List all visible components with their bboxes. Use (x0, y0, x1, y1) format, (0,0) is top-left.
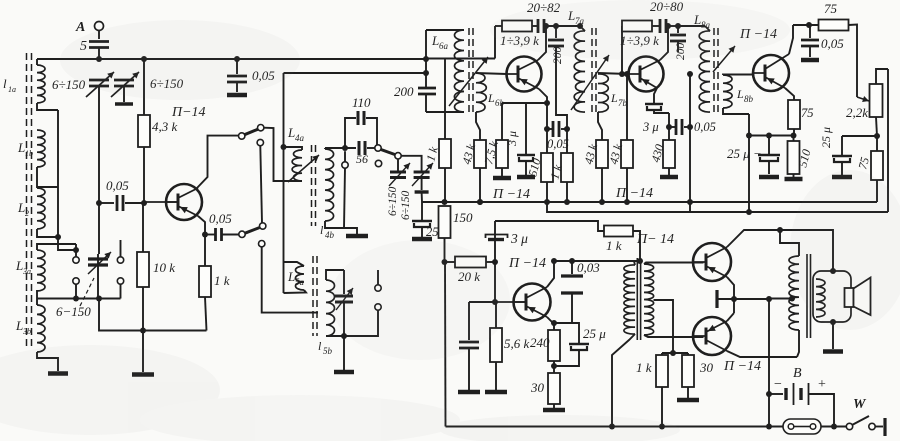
wire rail 567 (566, 122, 568, 202)
wire collector Q7 (727, 351, 797, 357)
node (544, 126, 550, 132)
capacitor 3mu (coupling) (486, 231, 529, 246)
svg-text:l: l (3, 76, 7, 91)
label L8b (736, 87, 754, 104)
wire (544, 23, 583, 29)
main bus (422, 201, 877, 203)
capacitor 20-82 (527, 0, 561, 33)
speaker box (813, 271, 851, 322)
svg-text:П −14: П −14 (615, 186, 653, 201)
primary center tap (769, 296, 795, 302)
wire (98, 48, 100, 60)
svg-text:6÷150: 6÷150 (387, 186, 399, 216)
resistor 150 (439, 206, 474, 238)
svg-text:+: + (818, 377, 826, 392)
coil L3a (37, 244, 76, 291)
wire collector Q2 (538, 23, 549, 60)
svg-text:L: L (17, 140, 25, 155)
svg-text:L: L (17, 200, 25, 215)
svg-text:25 μ −: 25 μ − (727, 146, 762, 161)
coil L4a (281, 144, 303, 181)
coil L5b (326, 270, 344, 336)
coil L5a (284, 262, 307, 293)
resistor 43k (3) (606, 71, 633, 205)
wire emitter Q2 (539, 89, 550, 106)
svg-text:l: l (320, 223, 324, 237)
wire emitter Q6 (727, 277, 734, 313)
coil L8a (678, 26, 710, 112)
switch contact (258, 125, 264, 131)
wire (344, 310, 378, 336)
tuning arrow L6 (449, 57, 488, 106)
wire (98, 203, 99, 265)
emitter tap bar (717, 290, 734, 308)
svg-text:10 k: 10 k (153, 260, 175, 275)
svg-text:240: 240 (530, 335, 550, 350)
node (544, 199, 570, 205)
svg-text:L: L (487, 91, 495, 105)
capacitor 0.03 (558, 258, 600, 323)
label L3a (15, 258, 31, 276)
svg-text:150: 150 (453, 210, 473, 225)
ground (785, 174, 803, 179)
wire collector Q5 (547, 258, 557, 287)
wire (262, 247, 318, 313)
coil L6a (454, 30, 464, 112)
svg-text:110: 110 (352, 95, 371, 110)
svg-text:0,05: 0,05 (209, 211, 232, 226)
wire base Q3 (598, 73, 629, 74)
svg-text:0,03: 0,03 (577, 260, 600, 275)
svg-text:П−14: П−14 (171, 105, 206, 120)
capacitor 3mu (2) (642, 104, 669, 134)
ground speaker (823, 322, 843, 352)
svg-text:30: 30 (530, 380, 545, 395)
node (599, 199, 605, 205)
trimmer 6-150 (88, 252, 111, 274)
svg-text:П −14: П −14 (508, 256, 546, 271)
svg-text:3 μ: 3 μ (510, 231, 528, 246)
svg-text:3b: 3b (22, 327, 31, 336)
wire collector Q6 (727, 230, 833, 272)
capacitor 0.05 (det) (801, 25, 844, 60)
label P-14 IF1 (492, 187, 530, 202)
node (551, 363, 557, 369)
resistor 75 (3) (855, 136, 883, 180)
ground L3b (37, 352, 68, 374)
capacitor 3mu (1) (505, 103, 535, 177)
label L7a (567, 8, 585, 26)
svg-text:2: 2 (25, 209, 29, 218)
switch contact (342, 162, 348, 168)
resistor 510 (2) (788, 136, 814, 175)
IF1 tank box (426, 30, 464, 112)
node (564, 126, 570, 132)
wire (809, 394, 838, 430)
capacitor (input bypass) (458, 302, 495, 392)
node (341, 333, 347, 339)
wire y73 (284, 72, 427, 74)
label L8a (693, 12, 711, 30)
capacitor 200 (3) (670, 26, 687, 60)
resistor 1k (199, 235, 230, 331)
svg-text:6−150: 6−150 (56, 304, 91, 319)
svg-text:l: l (318, 339, 322, 353)
switch contact (395, 153, 401, 159)
wire rail 283 (283, 73, 285, 293)
svg-text:5,6 k: 5,6 k (504, 336, 530, 351)
capacitor 25mu (2) (819, 127, 852, 177)
svg-text:2,2k: 2,2k (846, 105, 868, 120)
ground (334, 336, 354, 372)
wire top bus left (37, 58, 124, 60)
capacitor 25mu (4) (554, 323, 606, 366)
speaker (845, 278, 871, 316)
resistor 430 (648, 140, 675, 168)
wire (344, 168, 345, 228)
capacitor 110 loop (345, 95, 377, 148)
wire (98, 86, 100, 197)
svg-text:W: W (853, 397, 867, 412)
label P-14 Q5 (508, 256, 546, 271)
node (675, 23, 681, 29)
wire collector Q1 (196, 136, 238, 189)
switch contact (259, 223, 266, 247)
wire base Q2 (476, 73, 507, 74)
svg-text:L: L (431, 33, 439, 48)
wiper arrow 2.2k (857, 96, 869, 102)
wire top bus to y26 (426, 26, 495, 59)
resistor 1k (2) (547, 153, 573, 182)
switch contact (73, 278, 79, 284)
wire (260, 146, 262, 223)
switch contact (257, 139, 263, 145)
node (202, 232, 208, 238)
wire (734, 296, 772, 302)
wire emitter Q5 (547, 317, 557, 326)
svg-text:30: 30 (699, 360, 714, 375)
svg-text:56: 56 (356, 152, 368, 166)
wire emitter Q3 (654, 88, 657, 103)
switch contact (375, 160, 381, 166)
svg-text:0,05: 0,05 (106, 178, 129, 193)
resistor 1k (L4 feed) (423, 59, 451, 203)
svg-text:L: L (287, 269, 295, 284)
label P-14 Q1 (171, 105, 206, 120)
resistor 75 (emitter) (788, 100, 814, 129)
antenna A terminal (75, 20, 104, 35)
node (73, 247, 79, 253)
svg-text:L: L (15, 258, 23, 273)
node (553, 23, 559, 29)
node (830, 268, 836, 325)
resistor 1-3.9k (1) (500, 21, 539, 49)
tuning arrow L7 (571, 55, 609, 110)
ground (543, 404, 565, 410)
core L8 (dashed) (714, 28, 718, 112)
core L6 (dashed) (469, 28, 473, 112)
driver transformer core (637, 258, 640, 340)
wire (791, 129, 797, 139)
coil L3b (37, 299, 45, 353)
resistor 1-3.9k (2) (619, 21, 659, 78)
svg-text:−: − (774, 377, 782, 392)
svg-text:1b: 1b (25, 149, 33, 158)
variable capacitor 6-150 (2) (111, 72, 184, 104)
resistor 7.5k (481, 103, 508, 168)
AGC line (547, 202, 888, 212)
wire rail 749 (746, 114, 752, 215)
wire (58, 237, 76, 250)
wire (476, 112, 480, 140)
svg-text:3 μ: 3 μ (505, 131, 519, 147)
coil L2 (37, 188, 58, 237)
capacitor 25mu (1) (727, 136, 780, 178)
wire L8b bottom (723, 108, 749, 114)
wire (633, 231, 643, 264)
wire rail 495 (494, 221, 496, 302)
label P-14 Q7 (723, 359, 761, 374)
wire junction row (37, 290, 121, 302)
svg-text:4a: 4a (295, 133, 305, 143)
capacitor 0.05 input (99, 178, 144, 211)
wire y261 (554, 260, 640, 262)
coil L7b (598, 74, 608, 112)
wire (57, 110, 59, 237)
label P-14 Q6 (636, 232, 674, 247)
resistor 5.6k (485, 299, 530, 392)
node (492, 259, 498, 265)
capacitor 0.05 (IF2) (669, 119, 716, 135)
label L1b (17, 140, 33, 158)
svg-text:0,05: 0,05 (547, 137, 569, 151)
wire emitter Q1 (198, 216, 205, 235)
svg-text:П −14: П −14 (492, 187, 530, 202)
variable capacitor 6-150 (1) (52, 72, 114, 97)
capacitor 0.05 (IF1) (547, 121, 569, 151)
trimmer 6-150 a (389, 159, 410, 186)
svg-text:6a: 6a (439, 41, 449, 51)
resistor 30 (2) (677, 353, 714, 400)
driver transformer primary (612, 261, 635, 427)
tuning arrow L8 (713, 46, 735, 72)
wire (75, 284, 77, 298)
label L6a (431, 33, 449, 51)
label 6-150 rot (387, 186, 399, 216)
svg-text:L: L (287, 125, 295, 140)
svg-text:1a: 1a (8, 85, 16, 94)
secondary center tap (654, 300, 674, 353)
coil L1a (37, 59, 58, 110)
resistor 1k (audio) (604, 226, 633, 254)
svg-text:A: A (75, 20, 85, 35)
wire (662, 350, 688, 356)
svg-text:П −14: П −14 (723, 359, 761, 374)
core L7 (dashed) (592, 28, 596, 112)
capacitor 0.05 bypass (227, 59, 275, 95)
wire rail 547 (546, 103, 548, 202)
svg-text:25 μ: 25 μ (819, 127, 833, 148)
node (442, 199, 484, 205)
resistor 43k (2) (581, 140, 608, 202)
label L5b (318, 339, 333, 356)
wire emitter Q7 (727, 313, 734, 321)
svg-text:L: L (736, 87, 744, 101)
wire (849, 25, 858, 98)
core L4 (dashed) (312, 145, 316, 226)
svg-text:0,05: 0,05 (821, 36, 844, 51)
potentiometer 2.2k (846, 84, 883, 120)
wire (769, 393, 783, 395)
svg-text:1 k: 1 k (636, 360, 652, 375)
switch arm (381, 150, 395, 155)
node (806, 22, 812, 28)
svg-text:3a: 3a (22, 267, 31, 276)
wire rail 445 (444, 262, 447, 427)
transistor Q2 P-14 (507, 57, 542, 92)
wire (598, 112, 602, 140)
wire (442, 238, 448, 265)
label L5a (287, 269, 305, 287)
label L4b (320, 223, 335, 240)
transistor Q5 P-14 (495, 284, 551, 321)
switch arm (245, 129, 258, 134)
svg-text:0,05: 0,05 (694, 120, 716, 134)
switch contact pair L5 (375, 270, 381, 310)
svg-text:П− 14: П− 14 (636, 232, 674, 247)
ground (132, 331, 154, 375)
wire (75, 244, 77, 257)
fuse (783, 419, 821, 434)
resistor 240 (530, 323, 560, 361)
wire (96, 197, 102, 206)
wire (98, 31, 100, 40)
svg-text:75: 75 (855, 156, 872, 171)
switch contact pair (117, 240, 123, 299)
transistor Q3 P-14 (629, 57, 664, 92)
svg-text:3 μ: 3 μ (642, 120, 659, 134)
coil L1b (37, 130, 58, 187)
wire (876, 69, 888, 84)
wire right rail (887, 69, 889, 212)
wire collector Q3 (660, 23, 671, 60)
resistor 510 (1) (525, 153, 553, 182)
ferrite rod (dashed) (27, 53, 32, 348)
resistor 30 (1) (530, 373, 560, 404)
wire (264, 128, 302, 181)
wire (553, 361, 555, 373)
label L4a (287, 125, 305, 143)
switch contact (73, 257, 79, 263)
capacitor 25mu (IF in) (412, 202, 445, 239)
wire (842, 133, 880, 139)
wire (668, 113, 670, 140)
svg-text:4b: 4b (325, 230, 335, 240)
svg-text:1 k: 1 k (606, 238, 622, 253)
label P-14 IF2 (615, 186, 653, 201)
transistor Q7 P-14 (output) (693, 317, 731, 355)
coil L4b (325, 148, 344, 228)
wire (495, 25, 502, 27)
ground (344, 228, 368, 236)
main wire y148 (325, 145, 356, 151)
wire (876, 180, 878, 202)
wire rail 690 (687, 71, 693, 212)
capacitor 200 (2) (548, 26, 567, 122)
label L2 (17, 200, 29, 218)
svg-text:L: L (610, 91, 618, 105)
svg-text:1 k: 1 k (214, 273, 230, 288)
wire y135 (749, 133, 794, 139)
switch contact (239, 133, 245, 139)
node (477, 199, 483, 205)
resistor 1k (5) (636, 353, 668, 430)
capacitor 5 (80, 39, 109, 54)
capacitor 200 (tank1) (394, 84, 436, 99)
wire (99, 299, 207, 334)
tuning arrow L4a (288, 155, 319, 182)
node (141, 200, 147, 206)
coil L8b (723, 75, 732, 108)
output transformer core (807, 254, 811, 338)
transistor Q1 P-14 (144, 184, 202, 220)
svg-text:4,3 k: 4,3 k (152, 119, 178, 134)
svg-text:B: B (793, 366, 802, 381)
svg-text:25 μ: 25 μ (583, 326, 606, 341)
bottom bus (446, 424, 847, 430)
label P-14 Q4 (739, 27, 777, 42)
core L5 (dashed) (313, 256, 317, 336)
label 6-150 rot (400, 190, 412, 220)
trimmer L5 (335, 270, 353, 336)
node (234, 56, 240, 62)
output transformer primary (777, 227, 799, 357)
svg-text:5b: 5b (323, 346, 333, 356)
output transformer secondary (816, 279, 825, 317)
wire emitter Q4 (785, 88, 794, 100)
driver transformer secondary (644, 263, 704, 338)
resistor 43k (1) (459, 140, 486, 202)
resistor 10k (137, 203, 175, 331)
wire top bus (124, 58, 426, 60)
node (55, 234, 61, 240)
label L6b (487, 91, 505, 108)
svg-text:L: L (15, 318, 23, 333)
ground (660, 168, 678, 177)
svg-text:8b: 8b (744, 94, 754, 104)
switch contact (375, 145, 381, 151)
label 6-150 (56, 278, 94, 319)
svg-text:200: 200 (394, 84, 414, 99)
capacitor 56 (356, 141, 375, 166)
node (423, 56, 429, 76)
wire supply step (495, 221, 604, 231)
coil L6b (476, 73, 486, 112)
transistor Q4 P-14 (753, 54, 789, 91)
label L7b (610, 91, 628, 108)
ground (493, 168, 511, 178)
wire (344, 151, 346, 162)
wire emitter chain (502, 102, 547, 104)
resistor 20k (445, 257, 496, 285)
label L3b (15, 318, 31, 336)
svg-text:75: 75 (824, 1, 838, 16)
node (666, 124, 672, 130)
node (731, 296, 737, 302)
transistor Q6 P-14 (output) (693, 243, 731, 281)
trimmer 6-150 b (401, 156, 433, 202)
capacitor 20-80 (650, 0, 684, 33)
